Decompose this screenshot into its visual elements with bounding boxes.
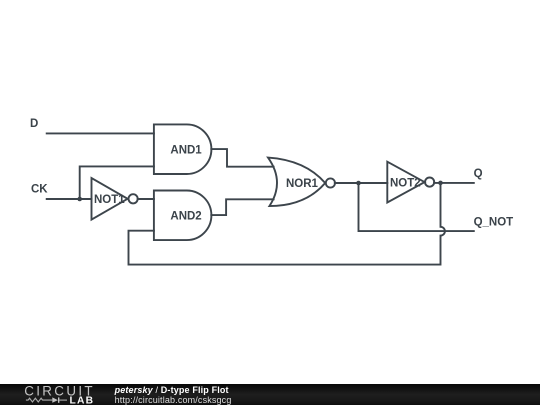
- svg-text:LAB: LAB: [70, 396, 95, 405]
- svg-text:Q: Q: [474, 168, 483, 180]
- svg-text:AND1: AND1: [170, 145, 202, 157]
- svg-text:AND2: AND2: [170, 210, 201, 222]
- svg-text:CK: CK: [31, 184, 48, 196]
- svg-text:D: D: [30, 118, 38, 130]
- svg-text:Q_NOT: Q_NOT: [474, 217, 514, 229]
- svg-text:NOT2: NOT2: [390, 178, 421, 190]
- svg-text:NOT1: NOT1: [94, 194, 125, 206]
- svg-text:NOR1: NOR1: [286, 178, 319, 190]
